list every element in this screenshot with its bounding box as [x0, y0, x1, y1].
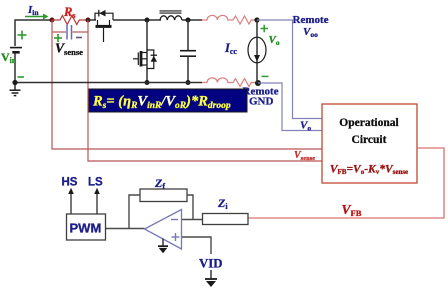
- current arrow I_in: [25, 14, 49, 20]
- wire: remote Voo sense (blue): [257, 20, 322, 119]
- svg-text:Remote: Remote: [293, 14, 329, 26]
- minus input mark: [171, 219, 178, 221]
- LS body diode: [151, 56, 157, 62]
- resistor R_s (red zigzag): [52, 16, 88, 25]
- red link to sense capacitor: [52, 31, 88, 33]
- wire: battery to top rail: [15, 20, 51, 46]
- wire: HS mosfet to switch node: [113, 19, 161, 21]
- HS body diode: [99, 10, 105, 17]
- wire: node B to HS mosfet: [88, 19, 96, 21]
- wire: minus input to Zi: [182, 219, 203, 221]
- plus sign sense cap: [54, 34, 62, 42]
- parasitic bottom (red coil + zigzag): [202, 78, 258, 87]
- HS drive arrow: [68, 188, 74, 214]
- current source I_cc: [256, 20, 258, 83]
- op circuit box U1: [322, 104, 417, 183]
- wire: battery bottom to ground rail: [14, 54, 16, 83]
- minus sign V_o: [262, 75, 269, 77]
- battery V_in: [10, 48, 22, 53]
- node: load top: [254, 17, 259, 22]
- plus sign battery: [18, 31, 27, 40]
- red sense line left (from node A down): [52, 20, 322, 149]
- wire: op-amp output to PWM: [106, 228, 145, 230]
- svg-text:Operational: Operational: [339, 117, 398, 129]
- capacitor C_sense plates: [67, 25, 72, 40]
- node B (R_s right): [86, 18, 91, 23]
- impedance Z_i: [203, 214, 249, 225]
- node: load bottom / remote gnd: [255, 80, 261, 86]
- capacitor C_out: [187, 20, 189, 51]
- transistor HS MOSFET: [95, 13, 113, 42]
- svg-text:Circuit: Circuit: [352, 134, 387, 146]
- wire: inductor to cap node: [182, 19, 202, 21]
- wire: V_FB output (red): [248, 148, 444, 218]
- svg-text:LS: LS: [88, 177, 103, 189]
- wire: Zf right to minus input: [187, 195, 193, 220]
- plus input mark: [172, 233, 180, 241]
- minus sign sense cap: [76, 37, 82, 39]
- node: switch node: [145, 18, 150, 23]
- node: cap bottom: [186, 80, 191, 85]
- svg-text:GND: GND: [249, 96, 274, 108]
- formula box R_s: [89, 89, 247, 112]
- red sense line right (from node B down): [88, 20, 322, 161]
- node: ground at battery: [12, 80, 17, 85]
- plus sign V_o: [261, 25, 269, 32]
- ground rail: [15, 82, 202, 84]
- op-amp A1: [145, 210, 182, 250]
- PWM box: [67, 214, 106, 240]
- ground symbol (battery): [10, 83, 21, 96]
- svg-text:VID: VID: [199, 257, 222, 271]
- ground (VID): [205, 270, 217, 279]
- ground (op-amp): [158, 239, 168, 247]
- LS drive arrow: [94, 188, 100, 214]
- node: LS source on ground rail: [145, 80, 150, 85]
- parasitic top (red coil + zigzag): [202, 15, 257, 24]
- wire: remote GND sense (blue): [258, 83, 322, 131]
- node A (R_s left): [50, 18, 55, 23]
- impedance Z_f: [140, 189, 187, 202]
- wire: Zf left to output node: [129, 195, 140, 229]
- minus sign battery: [18, 76, 25, 78]
- inductor L: [160, 16, 182, 20]
- transistor LS MOSFET branch: [146, 20, 148, 83]
- svg-text:PWM: PWM: [70, 221, 102, 236]
- svg-text:HS: HS: [62, 177, 78, 189]
- node: cap top: [186, 18, 191, 23]
- wire: plus input to VID: [182, 237, 212, 254]
